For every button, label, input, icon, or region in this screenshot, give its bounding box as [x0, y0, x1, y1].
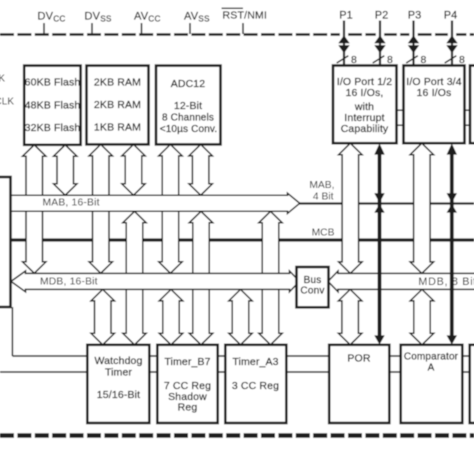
- timerB7-MDB arrow: [159, 289, 183, 344]
- svg-text:P1: P1: [339, 10, 352, 22]
- timerA3-MAB arrow: [259, 211, 282, 344]
- MAB 4-bit line to right: [298, 202, 474, 204]
- svg-text:1KB RAM: 1KB RAM: [94, 122, 141, 134]
- svg-text:32KB Flash: 32KB Flash: [25, 122, 81, 134]
- svg-text:4 Bit: 4 Bit: [313, 191, 334, 202]
- timerA3-MDB arrow: [229, 289, 252, 344]
- port P2 line: [379, 21, 381, 67]
- svg-text:K: K: [0, 74, 5, 85]
- svg-text:RST/NMI: RST/NMI: [223, 9, 268, 21]
- svg-text:MDB, 8 Bit: MDB, 8 Bit: [418, 276, 474, 288]
- svg-text:Conv: Conv: [300, 285, 324, 296]
- port P2 double arrowhead: [374, 35, 385, 43]
- port P1 line: [343, 21, 345, 67]
- svg-text:P2: P2: [375, 10, 388, 22]
- svg-text:P3: P3: [408, 10, 421, 22]
- port P2 bus width slash 8: [373, 56, 385, 63]
- P2 line: double head at MAB4 line: [374, 193, 384, 203]
- wires between bottom blocks x462-470: [462, 355, 469, 357]
- svg-text:MCB: MCB: [312, 228, 335, 239]
- svg-text:60KB Flash: 60KB Flash: [25, 76, 81, 88]
- tick DVSS: [91, 23, 93, 34]
- partial block at right edge (bottom row): [470, 345, 474, 423]
- port P4: white gap in dashed line: [448, 32, 456, 37]
- svg-text:A: A: [428, 363, 435, 374]
- svg-text:Reg: Reg: [178, 402, 198, 414]
- port P1 double arrowhead: [338, 35, 349, 43]
- svg-text:2KB RAM: 2KB RAM: [94, 77, 141, 89]
- wires between I/O port blocks: [397, 109, 404, 111]
- wires between I/O port 3/4 and cut block at right edge: [465, 109, 471, 111]
- svg-text:Capability: Capability: [341, 123, 389, 135]
- wires between bottom blocks x389-401: [389, 355, 400, 357]
- svg-text:Timer: Timer: [105, 366, 133, 378]
- svg-text:8 Channels: 8 Channels: [162, 112, 214, 123]
- svg-text:2KB RAM: 2KB RAM: [94, 99, 141, 111]
- svg-text:12-Bit: 12-Bit: [174, 100, 202, 112]
- partial block at right edge (top row): [470, 66, 474, 144]
- P4 line: arrowhead into bottom block: [447, 335, 457, 344]
- port P3 double arrowhead: [408, 35, 419, 43]
- flash-MDB arrow: [23, 145, 47, 273]
- watchdog-MAB arrow: [123, 211, 146, 344]
- tick RST/NMI: [242, 23, 244, 34]
- bottom dashed line: [0, 433, 474, 438]
- ADC-MDB arrow: [159, 144, 183, 273]
- svg-text:ADC12: ADC12: [171, 78, 206, 90]
- POR-MDB8 arrow: [338, 289, 362, 344]
- flash-MAB arrow: [54, 145, 78, 196]
- port P3 bus width slash 8: [406, 56, 418, 63]
- tick DVCC: [43, 23, 45, 34]
- MAB 16-bit bus band with right arrowhead: [11, 193, 300, 213]
- port P3 line: [412, 21, 414, 67]
- port P4 line: [451, 21, 453, 67]
- block RAM: [87, 66, 149, 145]
- comparator-MDB8 arrow: [410, 289, 434, 344]
- port P4 bus width slash 8: [445, 56, 457, 63]
- port P1: white gap in dashed line: [340, 32, 348, 37]
- port P3: white gap in dashed line: [409, 32, 417, 37]
- svg-text:MAB, 16-Bit: MAB, 16-Bit: [43, 197, 100, 208]
- svg-text:MAB,: MAB,: [309, 180, 334, 191]
- svg-text:Watchdog: Watchdog: [94, 355, 142, 367]
- svg-text:Timer_B7: Timer_B7: [164, 356, 210, 368]
- block I/O Port 1/2: [333, 66, 397, 144]
- timerB7-MAB arrow: [189, 211, 213, 344]
- P2 line: black line from I/O block to POR/Comparator: [378, 148, 382, 340]
- RAM-MAB arrow: [122, 144, 145, 195]
- wire row 1 CPU-watchdog: [12, 355, 87, 357]
- block CPU (cut at left edge): [0, 177, 11, 307]
- block ADC12: [156, 66, 221, 145]
- port P4 double arrowhead: [446, 35, 457, 43]
- IO34-MDB arrow: [410, 143, 434, 273]
- ADC-MAB arrow: [189, 144, 213, 195]
- wire row 2 from left edge to watchdog: [0, 371, 88, 373]
- top supply dashed line: [0, 33, 474, 36]
- svg-text:<10µs Conv.: <10µs Conv.: [160, 124, 218, 135]
- watchdog-MDB arrow: [91, 289, 115, 344]
- svg-text:CLK: CLK: [0, 97, 14, 108]
- svg-text:48KB Flash: 48KB Flash: [25, 99, 81, 111]
- block Watchdog Timer: [87, 345, 149, 423]
- svg-text:P4: P4: [444, 10, 457, 22]
- P4 line: black line from I/O block to POR/Comparator: [450, 148, 454, 340]
- svg-text:16 I/Os,: 16 I/Os,: [346, 87, 384, 99]
- wire from CPU bottom to watchdog (vertical): [11, 307, 13, 356]
- svg-text:POR: POR: [347, 353, 370, 365]
- wires between bottom blocks x149-157: [149, 355, 157, 357]
- IO12-MDB arrow: [339, 143, 363, 273]
- svg-text:3 CC Reg: 3 CC Reg: [232, 380, 279, 392]
- block Bus Conv: [297, 267, 329, 307]
- block Comparator A: [401, 345, 463, 423]
- P2 line: arrowhead into bottom block: [374, 335, 384, 344]
- block Flash memory: [24, 66, 80, 145]
- port P1 bus width slash 8: [337, 56, 349, 63]
- RAM-MDB arrow: [89, 144, 113, 273]
- block I/O Port 3/4: [404, 66, 465, 144]
- svg-text:Timer_A3: Timer_A3: [232, 356, 278, 368]
- svg-text:15/16-Bit: 15/16-Bit: [97, 389, 140, 401]
- MDB 16-bit bus band, left arrow into CPU, right arrow into Bus Conv: [11, 271, 300, 292]
- MCB line: [11, 238, 474, 241]
- svg-text:Comparator: Comparator: [404, 352, 459, 363]
- wires between bottom blocks x286-329: [286, 355, 329, 357]
- svg-text:16 I/Os: 16 I/Os: [417, 87, 452, 99]
- svg-text:MDB, 16-Bit: MDB, 16-Bit: [40, 276, 98, 287]
- port P2: white gap in dashed line: [376, 32, 384, 37]
- MDB 8-bit bus band with left arrowhead at Bus Conv: [328, 271, 474, 292]
- block POR: [329, 345, 389, 423]
- tick AVCC: [141, 23, 143, 34]
- tick AVSS: [189, 23, 191, 34]
- block Timer_A3: [225, 345, 286, 423]
- wires between bottom blocks x218-225: [218, 355, 226, 357]
- P4 line: double head at MAB4 line: [447, 193, 457, 203]
- svg-text:Bus: Bus: [304, 275, 322, 286]
- block Timer_B7: [157, 345, 217, 423]
